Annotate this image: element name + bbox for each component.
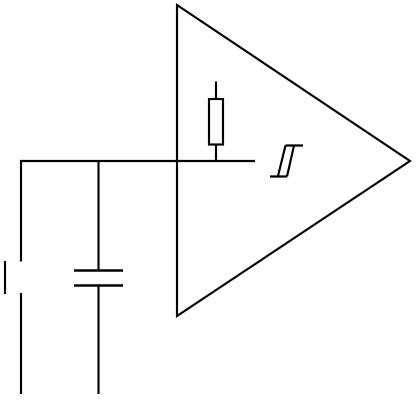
hysteresis symbol — [270, 146, 303, 177]
op-amp U1 (Schmitt-trigger buffer body) — [177, 5, 410, 316]
wire (capacitor branch lower) — [97, 286, 99, 394]
wire (left branch lower) — [20, 293, 22, 394]
wire (capacitor branch upper) — [97, 161, 99, 270]
wire (input net, horizontal) — [20, 160, 255, 162]
capacitor C1 — [74, 271, 123, 286]
switch contact bar SW1 — [4, 261, 6, 294]
wire (left branch upper) — [20, 160, 22, 262]
resistor R1 — [209, 82, 223, 162]
